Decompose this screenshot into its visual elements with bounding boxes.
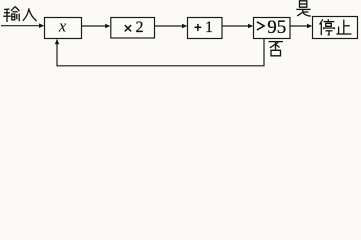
svg-text:x: x xyxy=(58,17,67,36)
svg-text:95: 95 xyxy=(267,17,286,38)
svg-text:1: 1 xyxy=(205,19,213,36)
svg-text:2: 2 xyxy=(136,19,144,36)
